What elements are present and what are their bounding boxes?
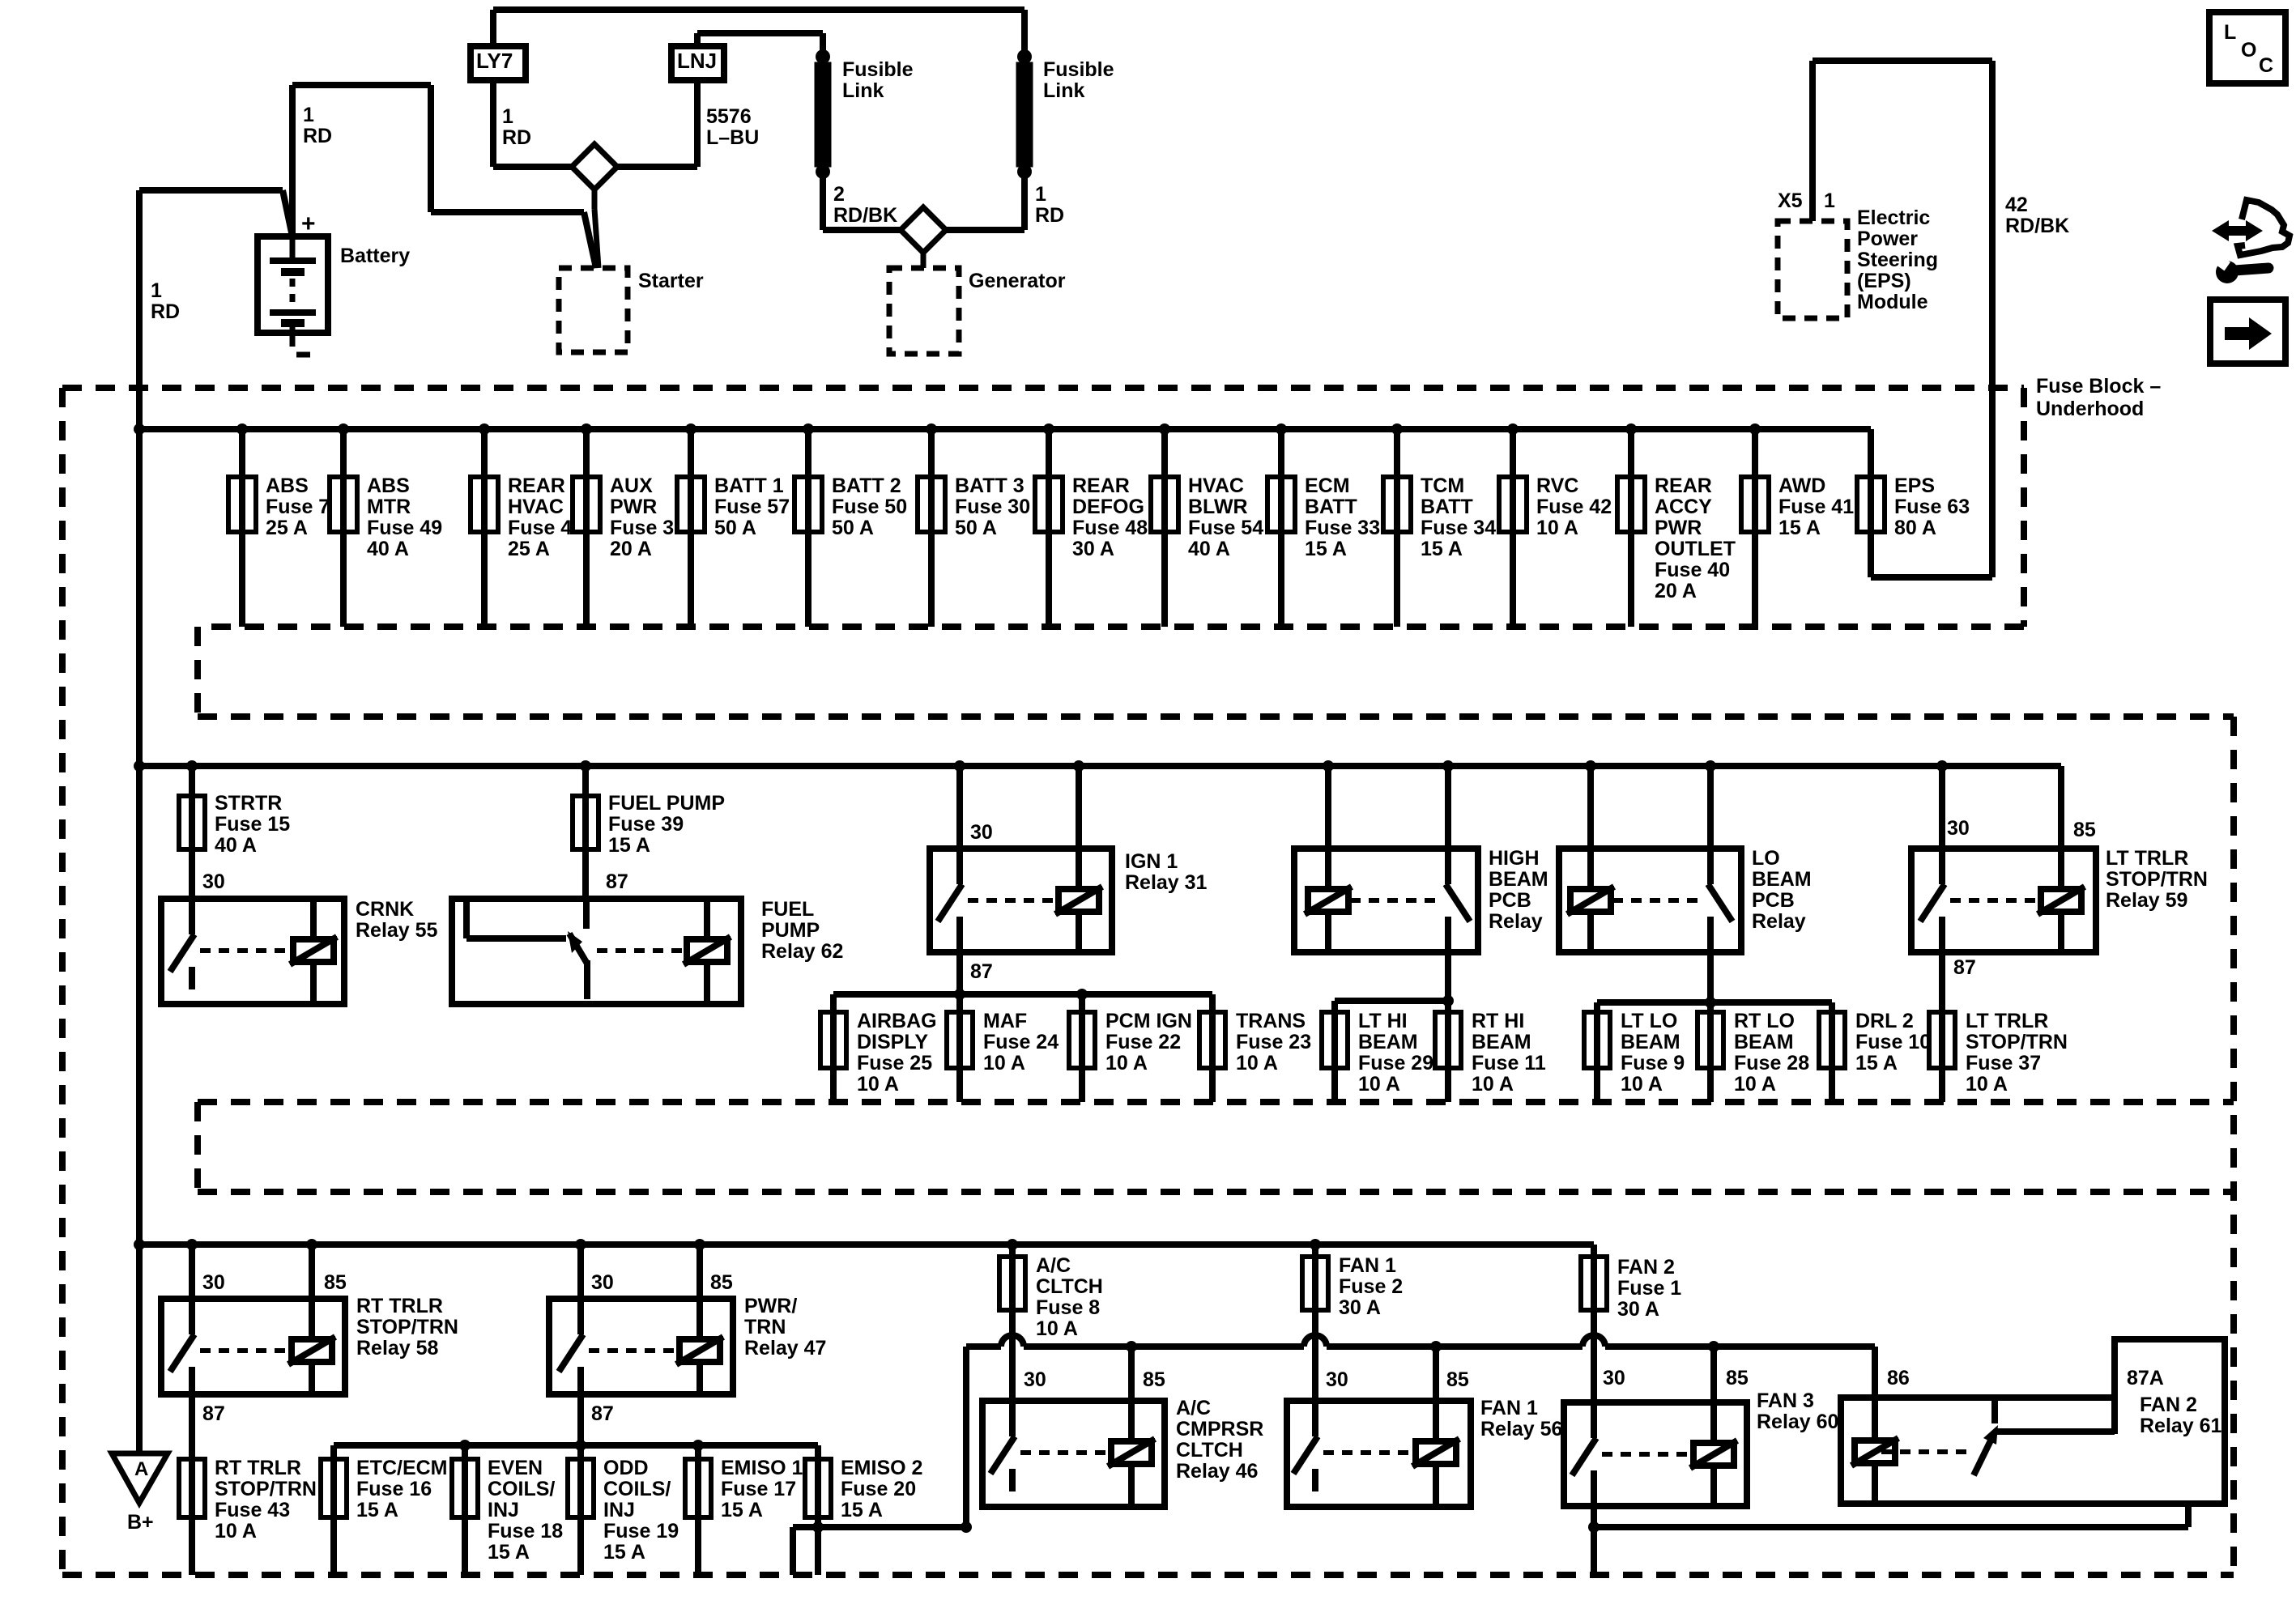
svg-text:IGN 1: IGN 1	[1125, 850, 1178, 873]
svg-text:Fuse 37: Fuse 37	[1966, 1052, 2041, 1074]
svg-text:LT LO: LT LO	[1621, 1010, 1677, 1032]
svg-text:+: +	[301, 211, 316, 237]
svg-text:INJ: INJ	[488, 1499, 519, 1521]
svg-text:RD: RD	[151, 300, 180, 323]
svg-text:L: L	[2224, 21, 2236, 44]
svg-text:15 A: 15 A	[1305, 538, 1347, 560]
svg-text:30: 30	[591, 1271, 614, 1294]
svg-text:EMISO 1: EMISO 1	[721, 1457, 803, 1479]
svg-text:Fuse 9: Fuse 9	[1621, 1052, 1685, 1074]
svg-text:RT TRLR: RT TRLR	[215, 1457, 301, 1479]
svg-text:PWR: PWR	[1655, 517, 1702, 539]
svg-text:Fusible: Fusible	[1043, 58, 1114, 81]
svg-text:Fuse 49: Fuse 49	[367, 517, 442, 539]
svg-text:15 A: 15 A	[1421, 538, 1463, 560]
svg-text:CLTCH: CLTCH	[1176, 1439, 1243, 1462]
svg-text:85: 85	[324, 1271, 347, 1294]
svg-text:Fuse 17: Fuse 17	[721, 1478, 796, 1500]
svg-text:Relay 60: Relay 60	[1757, 1411, 1838, 1433]
svg-text:10 A: 10 A	[1536, 517, 1578, 539]
svg-text:Fuse 2: Fuse 2	[1339, 1275, 1403, 1298]
svg-text:PUMP: PUMP	[761, 919, 820, 942]
svg-text:BEAM: BEAM	[1734, 1031, 1794, 1053]
svg-text:L–BU: L–BU	[706, 126, 759, 149]
svg-text:STOP/TRN: STOP/TRN	[1966, 1031, 2068, 1053]
svg-text:Relay 62: Relay 62	[761, 940, 843, 963]
svg-text:Relay 56: Relay 56	[1480, 1418, 1562, 1440]
svg-text:40 A: 40 A	[367, 538, 409, 560]
svg-text:Fusible: Fusible	[842, 58, 914, 81]
svg-text:Fuse 28: Fuse 28	[1734, 1052, 1809, 1074]
svg-text:BATT 1: BATT 1	[714, 474, 784, 497]
svg-text:O: O	[2241, 39, 2256, 62]
svg-text:RD: RD	[303, 125, 332, 147]
svg-text:Fuse 40: Fuse 40	[1655, 559, 1730, 581]
svg-text:42: 42	[2005, 194, 2028, 216]
svg-text:Fuse 42: Fuse 42	[1536, 496, 1612, 518]
svg-text:Fuse 39: Fuse 39	[608, 813, 684, 836]
svg-text:10 A: 10 A	[1105, 1052, 1148, 1074]
svg-text:85: 85	[1143, 1368, 1165, 1391]
svg-text:PWR/: PWR/	[744, 1295, 797, 1317]
svg-text:Relay 59: Relay 59	[2106, 889, 2187, 912]
svg-text:Relay 61: Relay 61	[2140, 1415, 2222, 1437]
svg-text:1: 1	[151, 279, 162, 302]
svg-text:Fuse 24: Fuse 24	[983, 1031, 1059, 1053]
svg-text:LY7: LY7	[476, 49, 513, 73]
svg-text:Fuse 18: Fuse 18	[488, 1520, 563, 1543]
svg-text:Fuse 11: Fuse 11	[1472, 1052, 1546, 1074]
svg-text:Relay 55: Relay 55	[356, 919, 438, 942]
svg-text:FAN 3: FAN 3	[1757, 1389, 1814, 1412]
svg-text:EVEN: EVEN	[488, 1457, 543, 1479]
svg-text:CMPRSR: CMPRSR	[1176, 1418, 1263, 1440]
svg-text:Fuse 43: Fuse 43	[215, 1499, 290, 1521]
svg-text:Relay 31: Relay 31	[1125, 871, 1208, 894]
svg-text:15 A: 15 A	[1855, 1052, 1898, 1074]
svg-text:PCB: PCB	[1752, 889, 1795, 912]
svg-text:Fuse 8: Fuse 8	[1036, 1296, 1100, 1319]
svg-text:50 A: 50 A	[832, 517, 874, 539]
svg-text:LT TRLR: LT TRLR	[2106, 847, 2188, 870]
svg-text:Fuse 63: Fuse 63	[1894, 496, 1970, 518]
svg-text:1: 1	[1035, 183, 1046, 206]
svg-text:EPS: EPS	[1894, 474, 1935, 497]
svg-text:30: 30	[1947, 817, 1970, 840]
svg-text:5576: 5576	[706, 105, 752, 128]
svg-text:Relay 47: Relay 47	[744, 1337, 826, 1360]
svg-text:1: 1	[502, 105, 513, 128]
svg-text:CLTCH: CLTCH	[1036, 1275, 1103, 1298]
svg-text:30 A: 30 A	[1072, 538, 1114, 560]
svg-text:Starter: Starter	[638, 270, 704, 292]
svg-text:AWD: AWD	[1778, 474, 1825, 497]
svg-text:Fuse 3: Fuse 3	[610, 517, 674, 539]
svg-text:RD: RD	[1035, 204, 1064, 227]
svg-text:FAN 1: FAN 1	[1480, 1397, 1538, 1419]
svg-text:RD/BK: RD/BK	[2005, 215, 2069, 237]
svg-text:30: 30	[1603, 1367, 1625, 1389]
svg-text:A: A	[134, 1458, 148, 1480]
svg-text:15 A: 15 A	[488, 1541, 530, 1564]
svg-text:TRANS: TRANS	[1236, 1010, 1306, 1032]
svg-text:40 A: 40 A	[215, 834, 257, 857]
svg-text:15 A: 15 A	[841, 1499, 883, 1521]
svg-text:15 A: 15 A	[356, 1499, 398, 1521]
svg-text:1: 1	[1824, 189, 1835, 212]
svg-text:HVAC: HVAC	[508, 496, 564, 518]
svg-text:30: 30	[202, 1271, 225, 1294]
svg-text:BEAM: BEAM	[1621, 1031, 1680, 1053]
svg-text:Fuse 30: Fuse 30	[955, 496, 1030, 518]
svg-text:15 A: 15 A	[608, 834, 650, 857]
svg-text:87: 87	[970, 960, 993, 983]
svg-text:PWR: PWR	[610, 496, 657, 518]
svg-text:10 A: 10 A	[215, 1520, 257, 1543]
svg-text:50 A: 50 A	[955, 517, 997, 539]
svg-text:MTR: MTR	[367, 496, 411, 518]
svg-text:86: 86	[1887, 1367, 1910, 1389]
svg-text:10 A: 10 A	[1236, 1052, 1278, 1074]
svg-text:2: 2	[833, 183, 845, 206]
svg-text:Fuse 33: Fuse 33	[1305, 517, 1380, 539]
svg-text:REAR: REAR	[1072, 474, 1130, 497]
svg-text:10 A: 10 A	[1734, 1073, 1776, 1096]
svg-text:40 A: 40 A	[1188, 538, 1230, 560]
svg-text:30 A: 30 A	[1617, 1298, 1659, 1321]
svg-text:Battery: Battery	[340, 245, 410, 267]
svg-text:80 A: 80 A	[1894, 517, 1936, 539]
svg-text:COILS/: COILS/	[488, 1478, 555, 1500]
svg-text:RVC: RVC	[1536, 474, 1578, 497]
svg-text:Fuse 25: Fuse 25	[857, 1052, 932, 1074]
svg-text:LT HI: LT HI	[1358, 1010, 1408, 1032]
svg-text:Relay: Relay	[1489, 910, 1543, 933]
svg-text:BATT: BATT	[1421, 496, 1473, 518]
svg-text:PCM IGN: PCM IGN	[1105, 1010, 1192, 1032]
svg-text:Fuse 41: Fuse 41	[1778, 496, 1854, 518]
svg-text:10 A: 10 A	[983, 1052, 1025, 1074]
svg-text:Fuse 23: Fuse 23	[1236, 1031, 1311, 1053]
svg-text:A/C: A/C	[1176, 1397, 1211, 1419]
svg-text:Underhood: Underhood	[2036, 398, 2144, 420]
svg-text:REAR: REAR	[1655, 474, 1712, 497]
svg-text:MAF: MAF	[983, 1010, 1027, 1032]
svg-text:FAN 2: FAN 2	[1617, 1256, 1675, 1279]
svg-text:BEAM: BEAM	[1752, 868, 1812, 891]
svg-text:10 A: 10 A	[1036, 1317, 1078, 1340]
svg-text:Fuse 19: Fuse 19	[603, 1520, 679, 1543]
svg-text:15 A: 15 A	[1778, 517, 1821, 539]
svg-text:Fuse 29: Fuse 29	[1358, 1052, 1433, 1074]
svg-text:25 A: 25 A	[266, 517, 308, 539]
svg-text:Relay: Relay	[1752, 910, 1806, 933]
svg-text:ECM: ECM	[1305, 474, 1350, 497]
svg-text:87: 87	[591, 1402, 614, 1425]
svg-text:EMISO 2: EMISO 2	[841, 1457, 922, 1479]
svg-text:25 A: 25 A	[508, 538, 550, 560]
svg-text:Fuse 15: Fuse 15	[215, 813, 290, 836]
svg-text:20 A: 20 A	[1655, 580, 1697, 602]
svg-text:Fuse 57: Fuse 57	[714, 496, 790, 518]
svg-text:85: 85	[710, 1271, 733, 1294]
svg-text:LNJ: LNJ	[677, 49, 717, 73]
svg-text:COILS/: COILS/	[603, 1478, 671, 1500]
svg-text:Fuse 22: Fuse 22	[1105, 1031, 1181, 1053]
svg-text:FUEL: FUEL	[761, 898, 814, 921]
svg-text:Fuse 48: Fuse 48	[1072, 517, 1148, 539]
svg-text:BEAM: BEAM	[1489, 868, 1548, 891]
svg-text:TRN: TRN	[744, 1316, 786, 1338]
svg-text:HVAC: HVAC	[1188, 474, 1244, 497]
svg-text:30 A: 30 A	[1339, 1296, 1381, 1319]
svg-text:FUEL PUMP: FUEL PUMP	[608, 792, 725, 815]
svg-text:30: 30	[202, 870, 225, 893]
svg-text:A/C: A/C	[1036, 1254, 1071, 1277]
svg-text:Link: Link	[842, 79, 884, 102]
svg-text:FAN 2: FAN 2	[2140, 1394, 2197, 1416]
svg-text:DRL 2: DRL 2	[1855, 1010, 1914, 1032]
svg-text:Generator: Generator	[969, 270, 1066, 292]
svg-text:87: 87	[606, 870, 628, 893]
svg-text:10 A: 10 A	[1358, 1073, 1400, 1096]
svg-text:87: 87	[202, 1402, 225, 1425]
svg-text:REAR: REAR	[508, 474, 565, 497]
svg-text:CRNK: CRNK	[356, 898, 414, 921]
svg-text:RT LO: RT LO	[1734, 1010, 1795, 1032]
svg-text:INJ: INJ	[603, 1499, 635, 1521]
svg-text:Fuse 34: Fuse 34	[1421, 517, 1496, 539]
svg-text:85: 85	[2073, 819, 2096, 841]
svg-text:30: 30	[1024, 1368, 1046, 1391]
svg-text:15 A: 15 A	[721, 1499, 763, 1521]
svg-text:ACCY: ACCY	[1655, 496, 1712, 518]
svg-text:30: 30	[1326, 1368, 1348, 1391]
svg-text:30: 30	[970, 821, 993, 844]
svg-text:RT HI: RT HI	[1472, 1010, 1524, 1032]
svg-text:RT TRLR: RT TRLR	[356, 1295, 443, 1317]
svg-text:10 A: 10 A	[857, 1073, 899, 1096]
svg-text:50 A: 50 A	[714, 517, 756, 539]
svg-text:85: 85	[1726, 1367, 1749, 1389]
svg-text:Electric: Electric	[1857, 206, 1930, 229]
svg-text:HIGH: HIGH	[1489, 847, 1540, 870]
svg-text:Fuse 50: Fuse 50	[832, 496, 907, 518]
svg-text:Steering: Steering	[1857, 249, 1938, 271]
svg-text:STOP/TRN: STOP/TRN	[2106, 868, 2208, 891]
svg-text:X5: X5	[1778, 189, 1803, 212]
svg-text:STOP/TRN: STOP/TRN	[215, 1478, 317, 1500]
svg-text:Fuse 10: Fuse 10	[1855, 1031, 1931, 1053]
svg-text:ABS: ABS	[367, 474, 410, 497]
svg-text:BEAM: BEAM	[1358, 1031, 1418, 1053]
svg-text:ETC/ECM: ETC/ECM	[356, 1457, 448, 1479]
svg-text:FAN 1: FAN 1	[1339, 1254, 1396, 1277]
svg-text:Fuse 20: Fuse 20	[841, 1478, 916, 1500]
svg-text:ABS: ABS	[266, 474, 309, 497]
svg-text:DISPLY: DISPLY	[857, 1031, 928, 1053]
svg-text:BATT 2: BATT 2	[832, 474, 901, 497]
svg-text:TCM: TCM	[1421, 474, 1464, 497]
svg-text:Relay 58: Relay 58	[356, 1337, 439, 1360]
svg-text:87: 87	[1953, 956, 1976, 979]
svg-text:OUTLET: OUTLET	[1655, 538, 1736, 560]
svg-text:15 A: 15 A	[603, 1541, 645, 1564]
svg-text:Fuse 7: Fuse 7	[266, 496, 330, 518]
svg-text:85: 85	[1446, 1368, 1469, 1391]
svg-text:20 A: 20 A	[610, 538, 652, 560]
svg-text:RD/BK: RD/BK	[833, 204, 897, 227]
svg-text:LO: LO	[1752, 847, 1780, 870]
svg-text:Relay 46: Relay 46	[1176, 1460, 1258, 1483]
svg-text:Fuse Block –: Fuse Block –	[2036, 375, 2161, 398]
svg-text:ODD: ODD	[603, 1457, 649, 1479]
svg-text:Fuse 54: Fuse 54	[1188, 517, 1263, 539]
svg-text:BEAM: BEAM	[1472, 1031, 1531, 1053]
svg-text:87A: 87A	[2127, 1367, 2164, 1389]
svg-text:10 A: 10 A	[1621, 1073, 1663, 1096]
svg-text:C: C	[2259, 54, 2273, 77]
svg-text:Link: Link	[1043, 79, 1084, 102]
svg-text:PCB: PCB	[1489, 889, 1531, 912]
svg-text:STRTR: STRTR	[215, 792, 282, 815]
svg-text:Power: Power	[1857, 228, 1918, 250]
svg-text:LT TRLR: LT TRLR	[1966, 1010, 2048, 1032]
svg-text:Fuse 1: Fuse 1	[1617, 1277, 1681, 1300]
svg-text:AIRBAG: AIRBAG	[857, 1010, 937, 1032]
svg-text:STOP/TRN: STOP/TRN	[356, 1316, 458, 1338]
svg-text:BATT: BATT	[1305, 496, 1357, 518]
svg-text:DEFOG: DEFOG	[1072, 496, 1144, 518]
svg-text:RD: RD	[502, 126, 531, 149]
svg-text:10 A: 10 A	[1472, 1073, 1514, 1096]
svg-text:Module: Module	[1857, 291, 1928, 313]
svg-text:AUX: AUX	[610, 474, 653, 497]
svg-text:Fuse 4: Fuse 4	[508, 517, 572, 539]
svg-text:1: 1	[303, 104, 314, 126]
svg-text:(EPS): (EPS)	[1857, 270, 1911, 292]
svg-text:BLWR: BLWR	[1188, 496, 1248, 518]
svg-text:B+: B+	[127, 1511, 154, 1534]
svg-text:Fuse 16: Fuse 16	[356, 1478, 432, 1500]
svg-text:BATT 3: BATT 3	[955, 474, 1024, 497]
svg-text:10 A: 10 A	[1966, 1073, 2008, 1096]
